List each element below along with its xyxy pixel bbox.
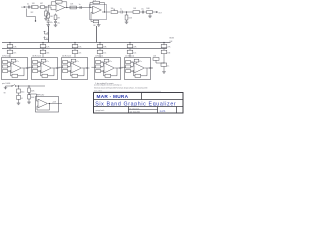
svg-text:6n8: 6n8 [167,52,170,54]
wire stage5 to mix [150,67,153,69]
label input gain [31,12,34,14]
resistor R10 load [144,8,153,13]
svg-text:100K: 100K [56,0,60,1]
branch cluster band 4: resistor/capacitor [97,42,107,58]
op-amp U2 [93,6,102,14]
node C junction [122,11,133,12]
svg-text:47n: 47n [13,52,16,54]
title block outer border [94,93,184,114]
title block bottom cells [129,107,177,114]
ground G3 [97,25,101,27]
wire vertical feed right [95,26,98,43]
capacitor C5 10u [141,8,144,13]
wire node A to op-amp U1 in+ [46,7,56,10]
title block bottom text file [130,108,140,113]
ground G5 [17,103,21,105]
wire to output cap [140,11,145,13]
branch cluster band 3: resistor/capacitor [72,42,82,58]
title block designer cell text [97,94,129,100]
wire to OUT [148,12,156,18]
wire mix node [164,57,165,63]
svg-text:15n: 15n [103,52,106,54]
title block title text [95,101,176,107]
wire U1 inverting input [51,2,56,5]
resistor R13 divider bottom [27,95,34,104]
wire U3 output VREF [48,101,62,104]
ground G2 [46,25,50,27]
band stage 3 op-amp gyrator (400 Hz) [58,56,89,80]
wire vertical feed to bus [47,26,50,43]
svg-text:10n: 10n [133,52,136,54]
resistor R11 10K mix [153,55,159,63]
resistor R12 divider top [28,86,35,93]
switch SW1 [6,85,17,87]
capacitor C4 [120,8,122,13]
capacitor C8 0.1u [17,93,24,103]
resistor R5 10K series [70,4,77,9]
resistor R7 U2 bias [91,12,99,27]
title block tiny header line 2 [94,87,148,90]
title block row divider 1 [94,93,184,100]
capacitor C1 0.1u [27,3,30,8]
node OUT jack [156,11,163,14]
resistor R6 feedback [90,0,105,12]
ground G1 [44,16,48,20]
resistor R2 1M to ground [45,7,51,16]
branch cluster band 5: resistor/capacitor [127,42,137,58]
node IN input jack J1 [21,6,25,9]
wire main bus [2,41,171,44]
box U3 reference buffer [36,93,59,112]
power +9V arrow [44,31,50,34]
wire R1 to node A [38,6,41,8]
wire U2 output [102,11,110,12]
band stage 2 op-amp gyrator (160 Hz) [28,56,59,80]
wire U3 feedback [37,104,50,111]
wire U2 inverting input [90,3,93,8]
title block row divider 2 [94,105,184,108]
node A junction [45,6,46,7]
resistor R4 10K to ground from U1 inv [47,5,54,18]
band stage 4 op-amp gyrator (1 kHz) [91,56,122,80]
branch cluster band 2: resistor/capacitor [40,42,50,58]
box U2 stage outline [90,5,107,20]
wire second bus rail [2,47,167,50]
node B junction [89,7,90,8]
svg-text:33n: 33n [46,52,49,54]
band stage 1 op-amp gyrator (62 Hz) [2,56,30,80]
capacitor C6 0.1 [156,63,169,67]
branch cluster band 6: resistor/capacitor [161,42,171,58]
power VREF arrow [44,37,49,40]
potentiometer VR1 level [111,8,121,13]
resistor R4b ladder 4K7 [54,14,61,27]
branch cluster band 1: resistor/capacitor [7,42,17,58]
note under stage 4 [95,83,114,85]
resistor R3 feedback 100K [51,0,67,8]
resistor R9 series [133,8,140,13]
resistor R1b 4K7 [40,3,46,8]
title block tiny header line 3 [94,89,162,92]
svg-text:22n: 22n [78,52,81,54]
capacitor C7 100u [17,86,25,93]
net label BUSS [170,37,174,42]
wire input [25,6,33,8]
op-amp U1 [56,4,65,12]
resistor R8 to ground [125,12,132,24]
ground G4 [162,66,166,73]
resistor R1 10K [32,3,39,8]
capacitor C2 47u to ground [47,18,53,25]
title block tiny header line 1 [94,83,122,86]
band stage 5 op-amp gyrator (2.5 kHz) [121,56,152,80]
battery BT1 9V [4,86,8,94]
note under stage 1 [2,82,10,85]
svg-text:1 of 1: 1 of 1 [160,110,167,113]
title block bottom text sheet [160,110,167,113]
wire U1 output [65,7,90,8]
op-amp U3 [35,94,48,108]
node supply junction [18,85,30,86]
node VREF divider [28,92,35,94]
title block bottom text design [96,109,105,112]
wire supply rail [16,85,45,87]
capacitor C3 [79,4,82,9]
wire input L-drop [27,9,37,22]
